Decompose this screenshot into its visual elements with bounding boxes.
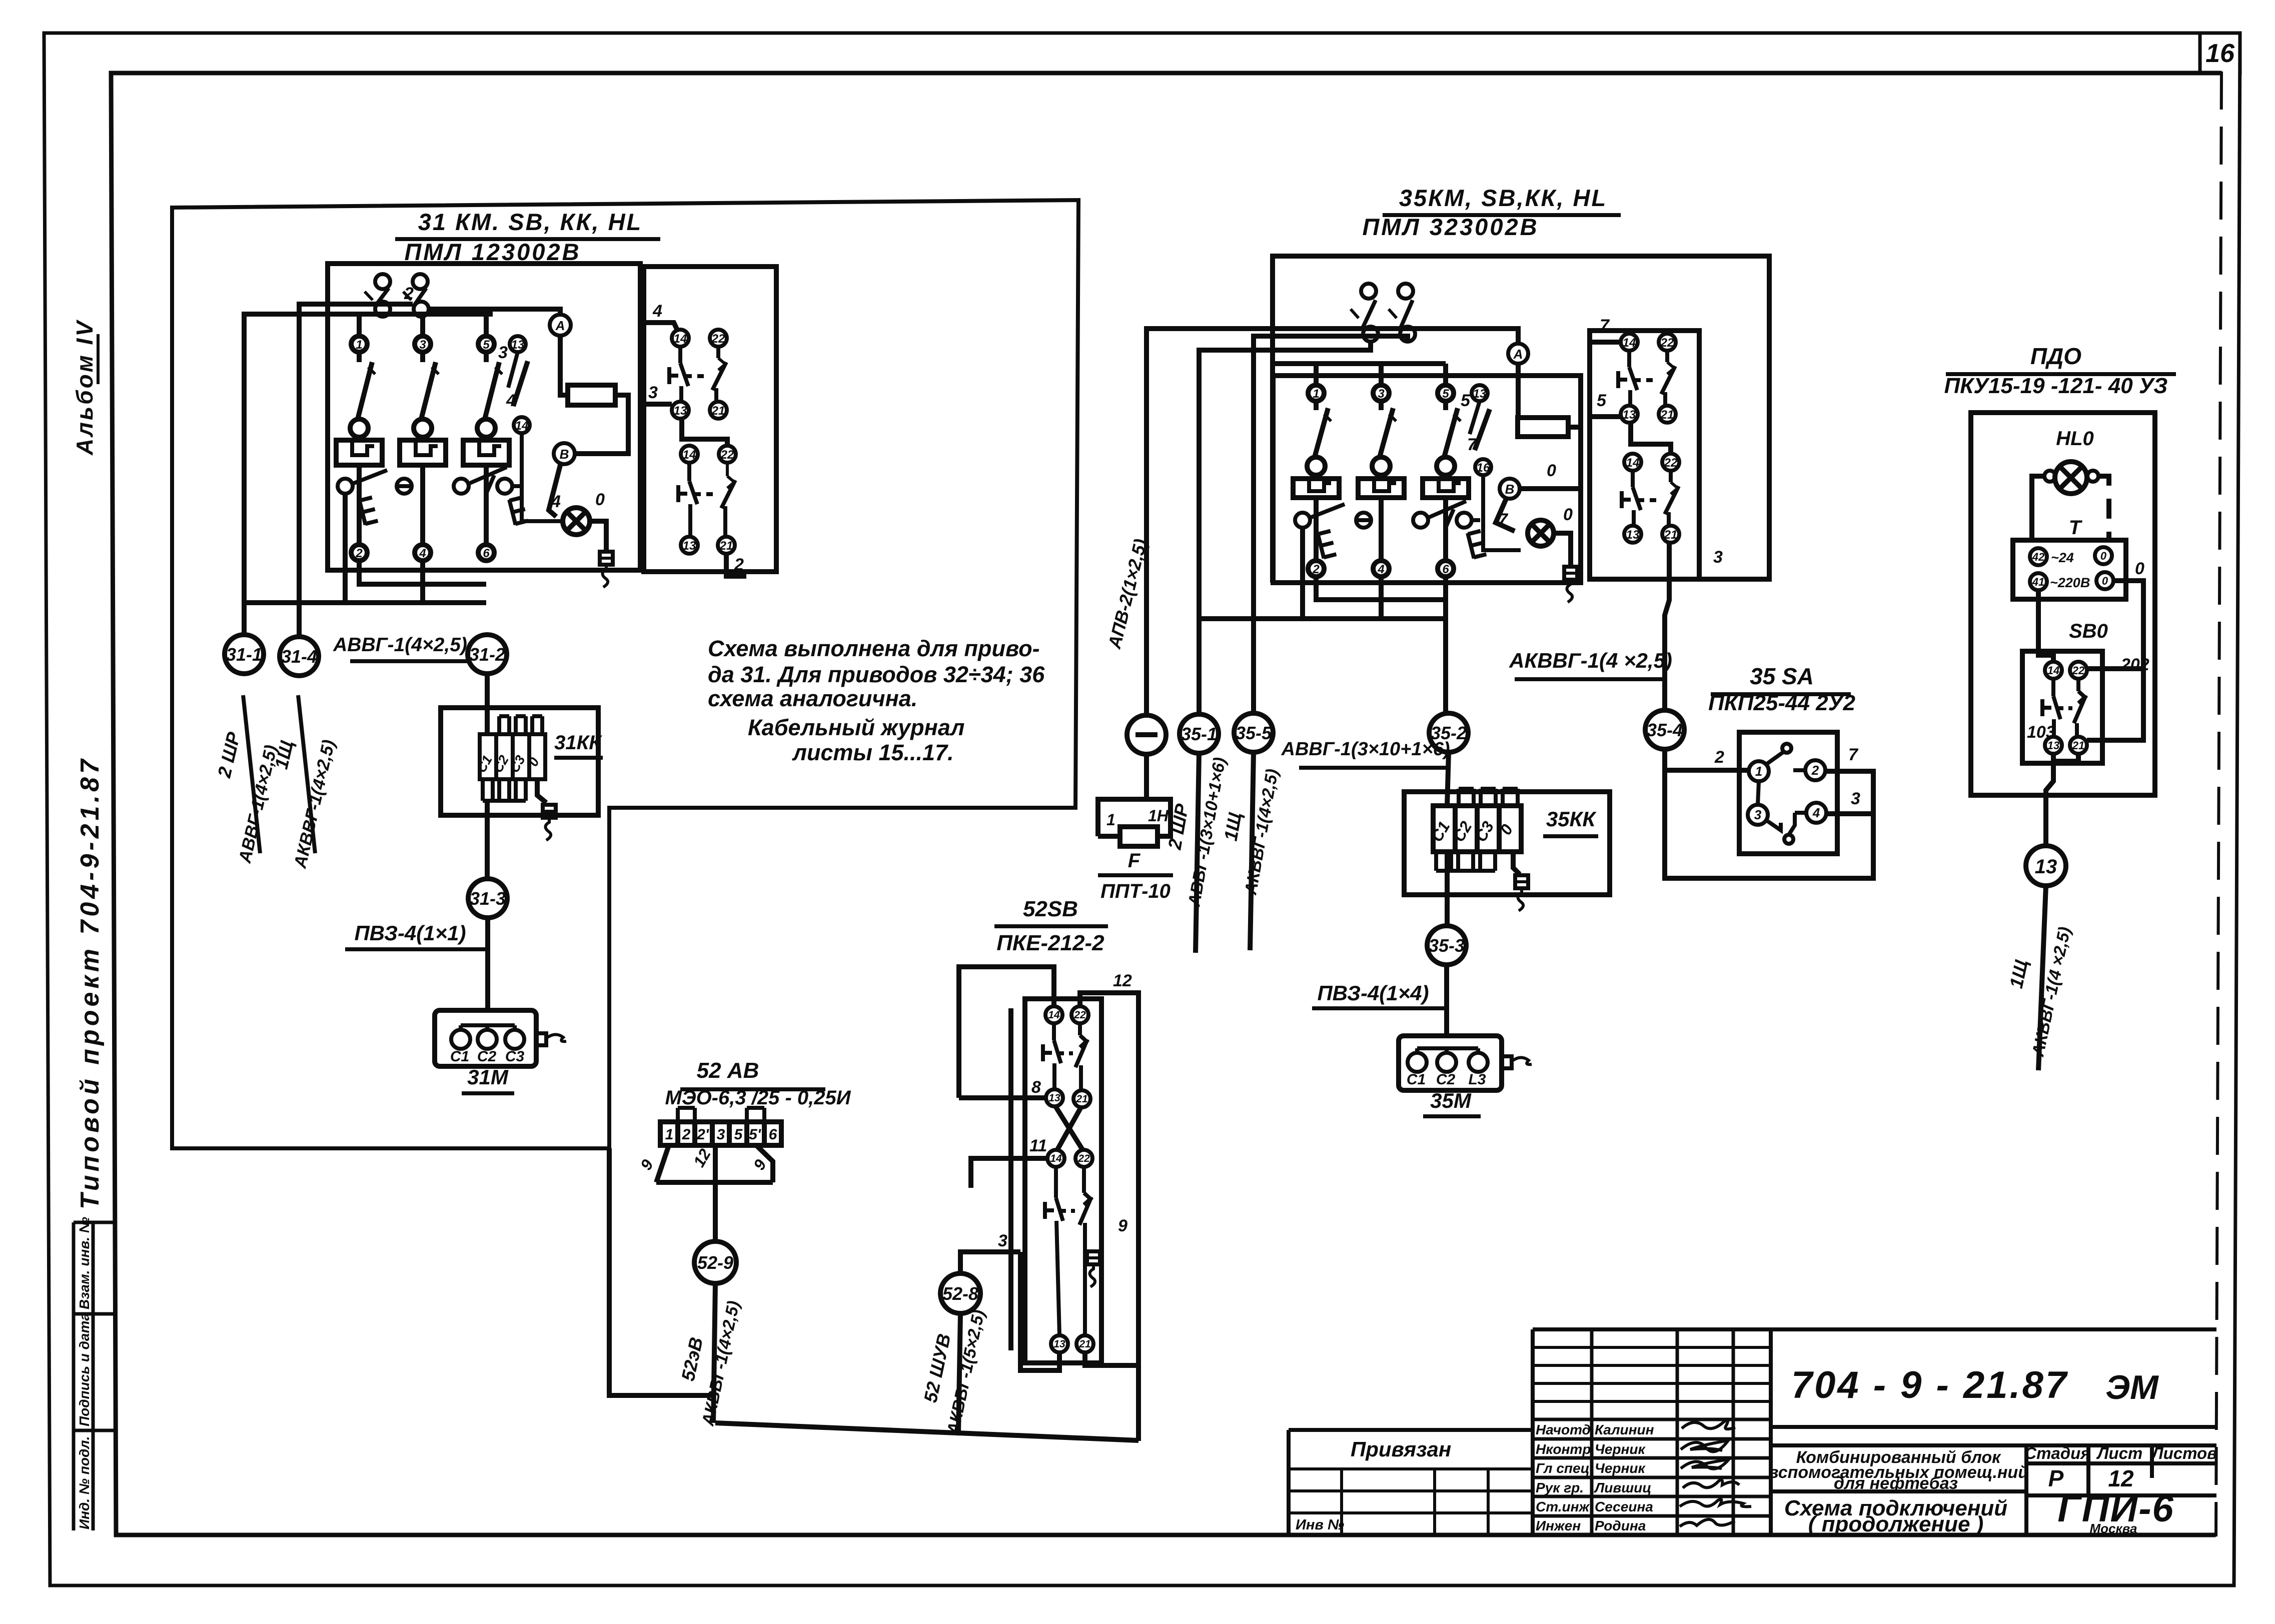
pole terminal numbers	[355, 338, 490, 560]
ground clamp 35	[1564, 567, 1577, 602]
node 31-4	[280, 637, 319, 676]
52SB g2 numbers	[1050, 1153, 1090, 1350]
svg-text:14: 14	[2047, 664, 2059, 677]
wire 2 from aux	[726, 554, 746, 576]
svg-text:13: 13	[1623, 408, 1636, 422]
svg-text:~220В: ~220В	[2050, 575, 2090, 590]
coil A terminal 35	[1508, 344, 1528, 364]
svg-text:7: 7	[1848, 745, 1859, 764]
svg-text:0: 0	[2102, 575, 2108, 587]
thermal relay 31KK box	[441, 708, 598, 815]
svg-text:12: 12	[1113, 971, 1132, 990]
switch numbers	[1754, 763, 1820, 822]
svg-text:Черник: Черник	[1595, 1441, 1646, 1457]
svg-text:21: 21	[1664, 528, 1678, 542]
svg-text:0: 0	[1547, 461, 1556, 480]
svg-text:1: 1	[1106, 811, 1115, 829]
svg-text:1: 1	[665, 1126, 674, 1143]
svg-text:41: 41	[2032, 576, 2044, 588]
wire minus to fuse	[1144, 754, 1149, 799]
svg-text:0: 0	[1563, 505, 1573, 524]
bottom bus	[715, 1423, 1139, 1440]
svg-text:13: 13	[1048, 1092, 1060, 1104]
wire lamp left	[2032, 476, 2044, 540]
svg-text:14: 14	[683, 448, 696, 462]
node 52-9	[694, 1241, 736, 1283]
svg-text:1: 1	[1313, 387, 1319, 401]
mech symbol 35b	[1468, 530, 1487, 559]
pushbutton box SB0	[2022, 651, 2102, 763]
wire B to lamp	[1496, 498, 1515, 531]
svg-text:21: 21	[711, 404, 725, 418]
wire lamp to ground	[590, 521, 606, 550]
motor terminals	[451, 1025, 524, 1049]
svg-text:35-5: 35-5	[1236, 723, 1272, 743]
heater cells 31KK	[480, 716, 545, 801]
aux interlock row	[338, 467, 520, 494]
svg-text:Лист: Лист	[2096, 1444, 2143, 1462]
svg-text:~24: ~24	[2051, 550, 2074, 565]
wire 35-1 riser	[1199, 342, 1371, 714]
mech symbol 35a	[1318, 530, 1337, 559]
svg-text:0: 0	[2100, 550, 2107, 562]
switch contacts	[1748, 744, 1826, 844]
pushbutton box SB35	[1590, 331, 1699, 579]
cable label line 31-1	[243, 695, 260, 853]
aux labels 35	[1623, 336, 1678, 542]
X crossing	[1055, 1106, 1083, 1150]
wire 41 down	[2038, 590, 2053, 662]
coil KM31	[568, 385, 615, 405]
svg-text:4: 4	[1377, 563, 1384, 576]
wire KK35 out	[1445, 852, 1450, 926]
svg-text:22: 22	[1660, 336, 1674, 350]
node 31-3	[468, 879, 507, 918]
svg-text:5: 5	[1461, 391, 1471, 410]
svg-text:да 31. Для приводов 32÷34; 3: да 31. Для приводов 32÷34; 36	[708, 662, 1045, 687]
svg-text:13: 13	[1053, 1338, 1065, 1350]
motor terminal labels	[450, 1048, 525, 1065]
SB35 top contact 2	[1389, 284, 1415, 342]
wire 3 to aux	[641, 402, 672, 407]
wire 7 to aux	[1590, 340, 1621, 345]
svg-text:Привязан: Привязан	[1351, 1437, 1451, 1461]
note text	[708, 636, 1045, 765]
svg-text:4: 4	[652, 302, 662, 321]
svg-text:ПВЗ-4(1×4): ПВЗ-4(1×4)	[1317, 981, 1429, 1005]
svg-text:В: В	[560, 447, 569, 462]
transformer terminals	[2030, 547, 2113, 590]
svg-text:31-4: 31-4	[281, 646, 317, 667]
bottom bus 1	[359, 561, 486, 584]
svg-text:Инд. № подл.: Инд. № подл.	[77, 1436, 92, 1530]
svg-text:4: 4	[551, 492, 561, 511]
svg-text:Ст.инж: Ст.инж	[1536, 1499, 1590, 1514]
svg-text:Гл спец: Гл спец	[1536, 1460, 1590, 1476]
wire 13 down	[2046, 761, 2053, 846]
svg-text:5: 5	[734, 1126, 743, 1143]
title sheet name	[1784, 1496, 2007, 1536]
aux contacts 35 group 2	[1622, 454, 1679, 543]
ground clamp KK31	[543, 805, 556, 840]
svg-text:1: 1	[1755, 764, 1762, 779]
svg-text:В: В	[1505, 482, 1515, 497]
fold dashed line right	[2216, 73, 2221, 1535]
svg-text:31КК: 31КК	[554, 732, 602, 754]
svg-text:103: 103	[2027, 723, 2055, 742]
page number box 16	[2200, 33, 2240, 73]
node 31-1	[225, 635, 264, 674]
wire loop left-bottom	[1665, 770, 1873, 878]
contactor KM31 box	[328, 264, 640, 570]
svg-text:42: 42	[2032, 551, 2045, 563]
wire 52-8 top	[960, 1252, 1020, 1273]
svg-text:21: 21	[1078, 1338, 1090, 1350]
svg-text:6: 6	[483, 547, 490, 560]
wire from region to bus	[609, 1148, 715, 1395]
svg-text:6: 6	[769, 1126, 777, 1143]
svg-text:3: 3	[1754, 807, 1762, 822]
svg-text:11: 11	[1029, 1136, 1047, 1155]
svg-text:7: 7	[1600, 316, 1610, 335]
motor ground squiggle	[536, 1033, 566, 1045]
svg-text:35М: 35М	[1430, 1089, 1472, 1112]
cable label line 31-4	[298, 695, 315, 853]
svg-text:13: 13	[511, 338, 525, 352]
svg-text:3: 3	[998, 1231, 1007, 1250]
svg-text:А: А	[1513, 347, 1523, 362]
PDO box	[1971, 413, 2155, 795]
signature rows names	[1536, 1422, 1654, 1533]
svg-text:35-1: 35-1	[1181, 724, 1217, 744]
svg-text:202: 202	[2120, 655, 2149, 674]
switch wires	[1665, 749, 1873, 878]
svg-text:Начотд: Начотд	[1536, 1422, 1591, 1437]
svg-text:52SВ: 52SВ	[1023, 897, 1078, 921]
svg-text:С2: С2	[1436, 1071, 1456, 1088]
wire pole feed	[1273, 364, 1446, 385]
svg-text:ПКУ15-19 -121- 40 УЗ: ПКУ15-19 -121- 40 УЗ	[1944, 374, 2168, 398]
underline IV	[97, 334, 100, 384]
svg-text:3: 3	[1713, 548, 1723, 567]
pole 2	[1358, 385, 1404, 577]
svg-text:4: 4	[419, 547, 426, 560]
svg-text:22: 22	[720, 448, 734, 462]
svg-text:4: 4	[1812, 805, 1820, 820]
wire 52-9 down	[713, 1283, 715, 1423]
wire SB to coil A	[429, 309, 560, 314]
wire 9 link	[1085, 1353, 1139, 1365]
svg-text:6: 6	[1442, 563, 1449, 576]
svg-text:13: 13	[683, 539, 696, 553]
svg-text:31 КМ. SВ, КК, HL: 31 КМ. SВ, КК, HL	[418, 209, 642, 235]
wire 35-2 down	[1447, 752, 1449, 806]
wire A to coil	[1516, 364, 1521, 418]
svg-text:Калинин: Калинин	[1595, 1422, 1654, 1437]
coil B terminal	[554, 443, 575, 464]
outer parallel wire	[1008, 1008, 1013, 1350]
wire 202	[2087, 666, 2143, 671]
svg-text:Черник: Черник	[1595, 1460, 1646, 1476]
left attached table	[1289, 1430, 1533, 1535]
svg-text:52-9: 52-9	[697, 1252, 733, 1273]
svg-text:14: 14	[1048, 1009, 1060, 1021]
wire coil to B	[1520, 427, 1581, 489]
svg-text:Нконтр: Нконтр	[1536, 1441, 1591, 1457]
svg-text:22: 22	[1073, 1009, 1086, 1021]
coil A terminal	[550, 315, 571, 336]
svg-text:35КК: 35КК	[1546, 807, 1597, 831]
svg-text:С1: С1	[1407, 1071, 1426, 1088]
svg-text:С1: С1	[450, 1048, 469, 1065]
motor terminals 35	[1408, 1048, 1488, 1072]
pole 3	[1423, 385, 1469, 577]
wire 3 link	[1020, 1252, 1059, 1370]
52SB group1	[1043, 1006, 1090, 1107]
wire 11	[971, 1158, 1047, 1188]
svg-text:1: 1	[356, 338, 362, 352]
svg-text:2': 2'	[696, 1126, 709, 1143]
52SB group2	[1045, 1150, 1093, 1352]
svg-text:L3: L3	[1468, 1071, 1486, 1088]
svg-text:2: 2	[682, 1126, 691, 1143]
wire 52-8 down	[958, 1313, 960, 1432]
node 35-1	[1180, 714, 1219, 753]
svg-text:2: 2	[734, 555, 744, 574]
svg-text:35 SА: 35 SА	[1750, 663, 1814, 689]
svg-text:16: 16	[2205, 39, 2235, 68]
svg-text:ПДО: ПДО	[2030, 343, 2081, 369]
svg-text:9: 9	[1118, 1216, 1127, 1235]
terminal strip 52AV	[660, 1108, 781, 1145]
svg-text:704 - 9 - 21.87: 704 - 9 - 21.87	[1791, 1364, 2068, 1406]
aux pole 13-14	[508, 336, 561, 521]
margin table labels	[77, 1217, 92, 1529]
ground clamp KK35	[1515, 875, 1528, 911]
pole 2	[400, 336, 446, 561]
wire 31-2 down	[485, 674, 490, 735]
svg-text:5: 5	[483, 338, 490, 352]
svg-text:Альбом IV: Альбом IV	[72, 319, 98, 456]
SB top contact 1	[365, 274, 390, 317]
lamp HL35	[1528, 520, 1554, 546]
svg-text:HL0: HL0	[2056, 428, 2094, 450]
motor box 31M	[435, 1010, 536, 1066]
wire coil to B	[575, 395, 628, 454]
node 35-5	[1234, 713, 1273, 752]
wire T right loop	[2087, 581, 2143, 740]
transformer labels	[2050, 550, 2090, 590]
wire 12 loop	[1080, 993, 1139, 1441]
svg-text:52 АВ: 52 АВ	[697, 1058, 759, 1083]
svg-text:2: 2	[1714, 748, 1724, 767]
svg-text:( продолжение ): ( продолжение )	[1808, 1512, 1984, 1536]
wire 31-4 riser	[299, 304, 421, 636]
svg-text:листы 15...17.: листы 15...17.	[792, 740, 954, 765]
svg-text:3: 3	[1378, 387, 1385, 401]
node 31-2	[468, 635, 507, 674]
svg-text:Родина: Родина	[1595, 1518, 1646, 1533]
svg-text:13: 13	[1626, 528, 1640, 542]
wire 31-3 to motor	[485, 918, 490, 1010]
wire 2	[1665, 749, 1749, 770]
wire aux g1 to g2	[682, 420, 727, 446]
wire 8	[959, 1095, 1046, 1100]
wire 31-1 riser and pole bus	[244, 314, 493, 634]
bottom bus 2	[1199, 528, 1446, 619]
svg-text:31-1: 31-1	[226, 644, 262, 665]
svg-text:ПКЕ-212-2: ПКЕ-212-2	[996, 931, 1104, 955]
svg-text:для нефтебаз: для нефтебаз	[1834, 1474, 1958, 1493]
svg-text:Листов: Листов	[2151, 1444, 2217, 1462]
svg-text:13: 13	[1473, 387, 1487, 401]
svg-text:3: 3	[419, 338, 426, 352]
svg-text:АВВГ-1(4×2,5): АВВГ-1(4×2,5)	[333, 634, 467, 656]
svg-text:22: 22	[1664, 456, 1678, 470]
svg-text:ПВЗ-4(1×1): ПВЗ-4(1×1)	[354, 921, 466, 945]
node 35-2	[1429, 713, 1468, 752]
svg-text:ЭМ: ЭМ	[2105, 1368, 2159, 1406]
svg-text:16: 16	[1477, 461, 1490, 475]
35 region outline	[1273, 256, 1769, 583]
svg-text:АКВВГ-1(4 ×2,5): АКВВГ-1(4 ×2,5)	[1509, 649, 1672, 672]
svg-text:1Н: 1Н	[1148, 807, 1169, 825]
svg-text:14: 14	[1050, 1153, 1062, 1164]
svg-text:SВ0: SВ0	[2069, 620, 2108, 642]
node 52-8	[940, 1273, 980, 1313]
node 35-4	[1645, 710, 1684, 749]
heater labels	[474, 753, 542, 775]
wire APV riser	[1147, 329, 1518, 715]
node 13	[2026, 846, 2066, 886]
svg-text:3: 3	[1851, 789, 1860, 808]
svg-text:35-4: 35-4	[1647, 720, 1683, 740]
node 35-3	[1427, 926, 1466, 965]
wire 35-5 tail	[1250, 752, 1254, 950]
stage header cells	[2024, 1444, 2217, 1462]
ground clamp 31	[600, 552, 613, 587]
wire B to lamp	[549, 463, 561, 517]
margin stamp table	[74, 1222, 116, 1530]
svg-text:5: 5	[1442, 387, 1449, 401]
svg-text:31-2: 31-2	[469, 644, 505, 665]
svg-text:22: 22	[711, 332, 725, 346]
svg-text:Кабельный журнал: Кабельный журнал	[748, 715, 964, 740]
heater labels 35	[1428, 818, 1517, 845]
strip labels	[665, 1126, 777, 1143]
pole 3	[463, 336, 509, 561]
title object name	[1768, 1448, 2028, 1493]
mech symbol 1	[359, 497, 378, 525]
svg-text:F: F	[1128, 850, 1141, 872]
svg-text:схема аналогична.: схема аналогична.	[708, 686, 917, 711]
thermal relay 35KK box	[1404, 792, 1610, 895]
ground clamp 52SB	[1087, 1251, 1100, 1287]
svg-text:С2: С2	[477, 1048, 497, 1065]
svg-text:7: 7	[1498, 510, 1509, 529]
wire KK output	[487, 779, 546, 878]
pole terminal numbers	[1312, 387, 1449, 576]
svg-text:7: 7	[1467, 435, 1478, 454]
SB top contact 2	[403, 274, 429, 317]
coil KM35	[1518, 418, 1568, 437]
svg-text:ППТ-10: ППТ-10	[1100, 880, 1171, 902]
svg-text:22: 22	[1077, 1153, 1090, 1164]
wire 3 right	[1826, 811, 1873, 816]
wire 13 tail	[2038, 886, 2046, 1070]
SB35 top contact 1	[1351, 284, 1378, 342]
svg-text:А: А	[555, 318, 565, 333]
svg-text:3: 3	[717, 1126, 725, 1143]
transformer box T	[2013, 540, 2126, 599]
motor box 35M	[1399, 1036, 1502, 1090]
aux pole 13-16	[1470, 385, 1521, 550]
svg-text:35-3: 35-3	[1429, 935, 1465, 956]
bottom bus 2	[245, 494, 486, 603]
svg-text:4: 4	[506, 391, 516, 410]
wires to bracket	[656, 1145, 773, 1241]
SB0 contacts	[2042, 662, 2087, 754]
svg-text:14: 14	[1626, 456, 1640, 470]
aux contacts 35 group 1	[1618, 334, 1676, 423]
svg-text:0: 0	[2135, 559, 2144, 578]
svg-text:5: 5	[1597, 391, 1607, 410]
svg-text:ПКП25-44 2У2: ПКП25-44 2У2	[1708, 691, 1855, 715]
svg-text:8: 8	[1031, 1078, 1041, 1097]
wire KK35 ground	[1513, 852, 1520, 874]
svg-text:14: 14	[515, 419, 529, 433]
wire lamp right dashed	[2098, 476, 2109, 540]
svg-text:Инв №: Инв №	[1296, 1517, 1344, 1533]
svg-text:Подпись и дата: Подпись и дата	[77, 1313, 92, 1426]
svg-text:С3: С3	[505, 1048, 525, 1065]
svg-text:Взам. инв. №: Взам. инв. №	[77, 1217, 92, 1309]
svg-text:52-8: 52-8	[942, 1283, 978, 1304]
pushbutton box SB31	[644, 267, 776, 572]
svg-text:ПМЛ 323002В: ПМЛ 323002В	[1362, 214, 1539, 240]
svg-text:13: 13	[2035, 856, 2057, 878]
switch box 35SA	[1739, 732, 1837, 854]
svg-text:22: 22	[2072, 664, 2085, 677]
svg-text:Москва: Москва	[2090, 1521, 2137, 1536]
svg-text:2: 2	[404, 284, 414, 303]
cable underline	[350, 659, 468, 663]
svg-text:0: 0	[595, 490, 605, 509]
svg-text:Лившиц: Лившиц	[1594, 1480, 1651, 1495]
svg-text:5': 5'	[749, 1126, 761, 1143]
lamp HL31	[563, 508, 590, 535]
pole 1	[336, 336, 382, 561]
svg-text:21: 21	[1075, 1093, 1087, 1105]
wire aux g1-g2	[1631, 423, 1671, 453]
wire 35-1 tail	[1196, 753, 1199, 953]
bottom bus 1	[1316, 577, 1446, 600]
svg-text:3: 3	[648, 383, 658, 402]
svg-text:21: 21	[719, 539, 733, 553]
wire 35-5 riser	[1254, 336, 1408, 713]
pole 1	[1293, 385, 1339, 577]
coil B terminal 35	[1500, 479, 1520, 499]
svg-text:21: 21	[2072, 739, 2084, 752]
wire lamp right	[1554, 533, 1571, 565]
svg-text:Типовой проект 704-9-21.: Типовой проект 704-9-21.87	[76, 756, 105, 1209]
pushbutton box 52SB	[1025, 999, 1101, 1363]
svg-text:3: 3	[498, 343, 508, 362]
aux group terminal labels	[674, 332, 734, 553]
svg-text:13: 13	[674, 404, 687, 418]
SB0 numbers	[2047, 664, 2085, 752]
svg-text:Сесеина: Сесеина	[1595, 1499, 1653, 1514]
